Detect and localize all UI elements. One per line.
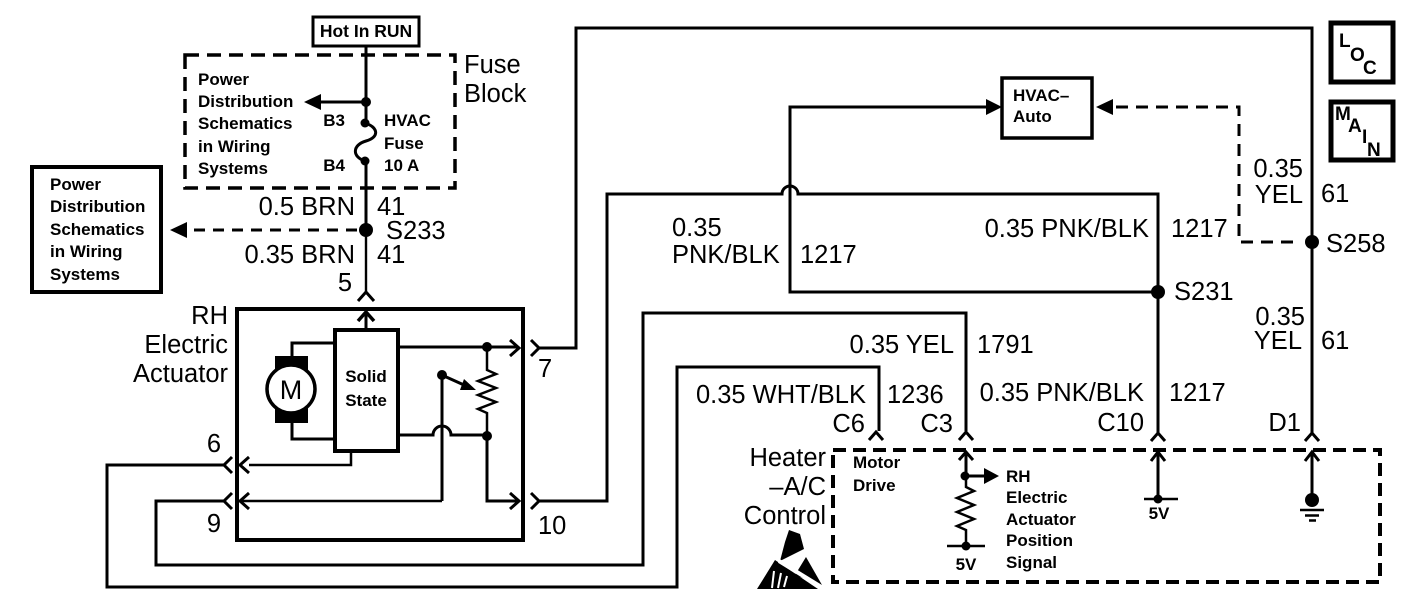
svg-text:9: 9 xyxy=(207,510,221,538)
svg-text:S231: S231 xyxy=(1174,278,1234,306)
svg-text:Schematics: Schematics xyxy=(50,220,145,239)
svg-text:0.35 PNK/BLK: 0.35 PNK/BLK xyxy=(985,215,1149,243)
svg-text:0.5 BRN: 0.5 BRN xyxy=(259,193,355,221)
svg-text:B4: B4 xyxy=(323,156,345,175)
svg-text:C: C xyxy=(1363,58,1377,79)
connector chevron pin 5 xyxy=(358,292,374,301)
svg-text:0.35 BRN: 0.35 BRN xyxy=(244,241,355,269)
svg-text:1791: 1791 xyxy=(977,331,1034,359)
svg-text:PNK/BLK: PNK/BLK xyxy=(672,241,780,269)
svg-text:B3: B3 xyxy=(323,111,345,130)
wire S231 to HVAC-Auto xyxy=(790,107,1158,292)
svg-text:1217: 1217 xyxy=(800,241,857,269)
RH Electric Actuator box xyxy=(237,309,523,540)
LOC box xyxy=(1331,23,1393,82)
svg-text:Electric: Electric xyxy=(144,331,228,359)
svg-text:M: M xyxy=(280,375,303,405)
wire solid state to resistor bottom with hop xyxy=(398,426,487,435)
svg-text:HVAC: HVAC xyxy=(384,111,431,130)
wire branch to power distribution arrow xyxy=(318,101,366,104)
D1 internal arrow ground xyxy=(1305,452,1319,461)
svg-text:5: 5 xyxy=(338,269,352,297)
svg-text:C6: C6 xyxy=(832,410,865,438)
svg-text:Block: Block xyxy=(464,80,527,108)
svg-text:10: 10 xyxy=(538,512,566,540)
svg-text:in Wiring: in Wiring xyxy=(198,137,271,156)
svg-text:10 A: 10 A xyxy=(384,156,419,175)
svg-text:7: 7 xyxy=(538,355,552,383)
resistor R position sensor xyxy=(478,347,496,436)
svg-text:Actuator: Actuator xyxy=(133,360,228,388)
wire pin 6 internal xyxy=(249,451,351,465)
svg-text:5V: 5V xyxy=(956,555,977,574)
connector chevron D1 xyxy=(1305,433,1319,441)
MAIN box xyxy=(1331,102,1393,160)
svg-text:0.35: 0.35 xyxy=(1253,155,1303,183)
node S258 xyxy=(1305,235,1319,249)
svg-text:Drive: Drive xyxy=(853,476,896,495)
Heater A/C Control dashed box xyxy=(833,450,1380,582)
wire B4 to connector pin 5 xyxy=(365,161,368,230)
connector chevron C6 xyxy=(869,432,883,440)
svg-text:1217: 1217 xyxy=(1171,215,1228,243)
svg-text:RH: RH xyxy=(1006,467,1031,486)
svg-text:0.35 PNK/BLK: 0.35 PNK/BLK xyxy=(980,379,1144,407)
Solid State box U1 xyxy=(335,330,398,451)
svg-text:S258: S258 xyxy=(1326,230,1386,258)
wire pin 6 to C6 xyxy=(107,367,879,587)
Power Distribution box xyxy=(32,167,161,292)
svg-text:0.35: 0.35 xyxy=(672,214,722,242)
svg-text:Distribution: Distribution xyxy=(198,92,293,111)
svg-text:State: State xyxy=(345,391,387,410)
svg-text:Motor: Motor xyxy=(853,453,901,472)
node junction at fuse feed xyxy=(361,97,371,107)
svg-text:Actuator: Actuator xyxy=(1006,510,1076,529)
svg-text:–A/C: –A/C xyxy=(769,473,826,501)
connector chevron pin 6 xyxy=(224,457,232,473)
wire solid state to pin 7 xyxy=(398,346,518,349)
svg-text:Power: Power xyxy=(198,70,249,89)
wire pin 9 internal xyxy=(240,500,442,503)
svg-text:Systems: Systems xyxy=(198,159,268,178)
resistor position signal xyxy=(957,476,974,546)
node resistor top xyxy=(482,342,492,352)
ground G1 xyxy=(1305,493,1319,507)
connector chevron C3 xyxy=(959,432,973,440)
svg-text:in Wiring: in Wiring xyxy=(50,242,123,261)
svg-text:N: N xyxy=(1367,140,1381,161)
connector chevron pin 9 xyxy=(224,493,232,509)
svg-text:61: 61 xyxy=(1321,180,1349,208)
svg-text:Schematics: Schematics xyxy=(198,114,293,133)
svg-text:41: 41 xyxy=(377,241,405,269)
svg-text:C10: C10 xyxy=(1097,409,1144,437)
svg-text:Position: Position xyxy=(1006,531,1073,550)
svg-text:Auto: Auto xyxy=(1013,107,1052,126)
svg-text:Hot In RUN: Hot In RUN xyxy=(320,21,412,41)
svg-text:Systems: Systems xyxy=(50,265,120,284)
svg-text:61: 61 xyxy=(1321,327,1349,355)
connector chevron C10 xyxy=(1151,433,1165,441)
svg-text:D1: D1 xyxy=(1268,409,1301,437)
ESD symbol xyxy=(780,530,804,561)
connector chevron pin 7 xyxy=(531,340,539,356)
node S231 xyxy=(1151,285,1165,299)
svg-text:Distribution: Distribution xyxy=(50,197,145,216)
C3 internal arrow and resistor xyxy=(959,452,973,460)
svg-text:YEL: YEL xyxy=(1255,181,1303,209)
wire pin 9 to C3 xyxy=(156,313,966,565)
svg-text:1236: 1236 xyxy=(887,381,944,409)
svg-text:Fuse: Fuse xyxy=(384,134,424,153)
svg-text:Control: Control xyxy=(744,502,826,530)
wire dashed to power distribution xyxy=(184,229,357,232)
wire pin5 into solid state with up arrow xyxy=(365,312,368,330)
svg-text:YEL: YEL xyxy=(1254,327,1302,355)
node S233 xyxy=(359,223,373,237)
HVAC-Auto box xyxy=(1002,78,1092,138)
connector chevron pin 10 xyxy=(531,493,539,509)
svg-text:Signal: Signal xyxy=(1006,553,1057,572)
motor M wires xyxy=(292,343,335,356)
svg-text:A: A xyxy=(1348,116,1362,137)
svg-text:1217: 1217 xyxy=(1169,379,1226,407)
wire hot in run to fuse B3 xyxy=(365,46,368,123)
dashed wire HVAC-Auto to S258 xyxy=(1096,99,1113,115)
wiper arm xyxy=(437,370,447,380)
svg-text:C3: C3 xyxy=(920,410,953,438)
wire resistor bottom to pin 10 xyxy=(487,436,518,501)
svg-text:Electric: Electric xyxy=(1006,488,1067,507)
svg-text:0.35 WHT/BLK: 0.35 WHT/BLK xyxy=(696,381,866,409)
wire wiper down xyxy=(441,377,444,501)
svg-text:HVAC–: HVAC– xyxy=(1013,86,1069,105)
C10 internal arrow 5V xyxy=(1151,452,1165,461)
Hot In RUN box xyxy=(313,17,419,46)
svg-text:Fuse: Fuse xyxy=(464,51,521,79)
svg-text:6: 6 xyxy=(207,430,221,458)
svg-text:Heater: Heater xyxy=(749,444,826,472)
svg-text:RH: RH xyxy=(191,302,228,330)
fuse block dashed box xyxy=(185,55,455,188)
svg-text:0.35 YEL: 0.35 YEL xyxy=(850,331,954,359)
svg-text:Power: Power xyxy=(50,175,101,194)
wire pin 10 to C10 with hop xyxy=(539,186,1158,501)
svg-text:5V: 5V xyxy=(1149,504,1170,523)
motor M1 xyxy=(275,356,308,372)
wire pin 7 to D1 xyxy=(539,28,1312,433)
fuse F1 HVAC 10A xyxy=(361,119,370,128)
svg-text:Solid: Solid xyxy=(345,367,387,386)
